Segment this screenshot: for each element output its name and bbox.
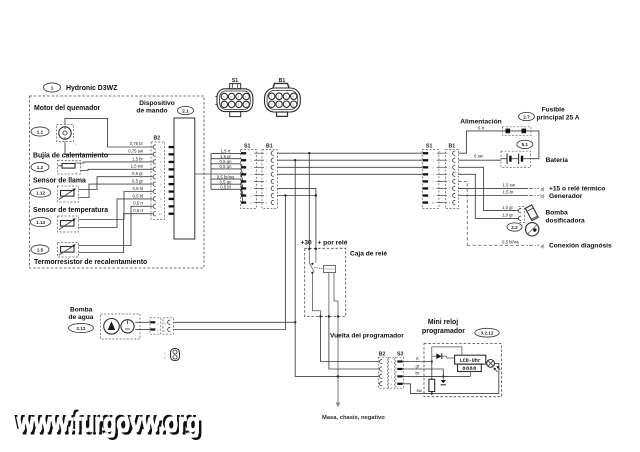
node 3.2.12 oval bbox=[475, 328, 499, 337]
flame sensor 1.12 bbox=[58, 186, 79, 202]
svg-text:B2: B2 bbox=[154, 136, 161, 142]
junction on bus1 bbox=[308, 152, 310, 154]
wire clock top loop bbox=[432, 347, 462, 362]
svg-text:2: 2 bbox=[278, 95, 280, 99]
svg-text:Fusible: Fusible bbox=[542, 107, 565, 114]
wire pump positive bbox=[174, 321, 296, 323]
svg-text:8: 8 bbox=[251, 201, 253, 205]
svg-text:8: 8 bbox=[433, 201, 435, 205]
svg-text:6: 6 bbox=[433, 187, 435, 191]
svg-text:Generador: Generador bbox=[549, 193, 583, 200]
connector S1 top view cavities bbox=[221, 93, 249, 107]
wire motor 0,75 br bbox=[65, 118, 153, 147]
svg-text:6: 6 bbox=[238, 103, 240, 107]
svg-text:B1: B1 bbox=[266, 144, 273, 150]
wire gr S3 to clock bbox=[403, 369, 444, 376]
svg-text:7: 7 bbox=[251, 194, 253, 198]
connector S1-B1 mid mating stubs bbox=[254, 153, 264, 202]
svg-text:1,5 rt: 1,5 rt bbox=[221, 148, 232, 153]
lamp illumination bbox=[486, 360, 500, 373]
connector B2 pin numbers bbox=[159, 145, 162, 216]
svg-text:Sensor de temperatura: Sensor de temperatura bbox=[33, 207, 108, 214]
water pump M 2.12 bbox=[101, 314, 141, 339]
node 2.12 oval bbox=[69, 323, 94, 332]
wire display to br bbox=[469, 372, 471, 377]
svg-text:S1: S1 bbox=[244, 144, 250, 150]
svg-text:Termorresistor de recalentamie: Termorresistor de recalentamiento bbox=[34, 259, 147, 266]
svg-text:1.5: 1.5 bbox=[37, 247, 44, 252]
svg-text:gr: gr bbox=[416, 363, 420, 368]
svg-text:4: 4 bbox=[251, 173, 253, 177]
svg-text:5: 5 bbox=[433, 180, 435, 184]
junction pin7 pump branch bbox=[284, 194, 286, 196]
svg-text:3: 3 bbox=[230, 95, 232, 99]
junction coil b bottom bbox=[337, 315, 339, 317]
svg-text:+30: +30 bbox=[301, 240, 313, 247]
svg-text:2: 2 bbox=[160, 153, 162, 157]
node 2.7 oval bbox=[519, 112, 535, 120]
svg-text:2: 2 bbox=[433, 159, 435, 163]
svg-text:8: 8 bbox=[223, 103, 225, 107]
svg-text:7: 7 bbox=[433, 194, 435, 198]
svg-text:8: 8 bbox=[160, 197, 162, 201]
svg-text:0,5 rt: 0,5 rt bbox=[133, 201, 144, 206]
capacitor to ground bbox=[441, 376, 446, 384]
svg-text:1,5 ws: 1,5 ws bbox=[131, 164, 143, 169]
wire br S3 to clock bbox=[403, 375, 471, 377]
svg-text:br: br bbox=[416, 371, 420, 376]
svg-text:S3: S3 bbox=[397, 351, 403, 357]
pump connector S housing bbox=[150, 318, 161, 334]
temperature sensor 1.13 bbox=[58, 216, 79, 232]
svg-text:0,5 bl: 0,5 bl bbox=[220, 185, 231, 190]
svg-text:4: 4 bbox=[266, 173, 268, 177]
wire ladder line3 bbox=[211, 164, 246, 168]
node 1.12 oval bbox=[30, 188, 50, 197]
wire temp bl a bbox=[79, 192, 153, 220]
connector S1 mid pins bbox=[241, 152, 246, 204]
svg-text:5.1: 5.1 bbox=[522, 142, 529, 147]
junction on bus2 bbox=[294, 159, 296, 161]
connector B2 programmer sockets bbox=[380, 359, 383, 386]
svg-text:1: 1 bbox=[251, 152, 253, 156]
node 1 oval bbox=[44, 83, 61, 92]
svg-text:+ por relé: + por relé bbox=[318, 240, 348, 247]
connector S1 right pin numbers bbox=[433, 152, 435, 205]
svg-text:0,5 gr: 0,5 gr bbox=[132, 171, 144, 176]
svg-text:a: a bbox=[165, 352, 167, 355]
wire 1,0 gr dosing pump b bbox=[458, 174, 518, 218]
wire overheat rt b bbox=[79, 214, 153, 253]
dosing pump 2.2 bbox=[525, 205, 539, 236]
svg-text:Hydronic D3WZ: Hydronic D3WZ bbox=[66, 85, 118, 92]
connector B1 top view cavities bbox=[269, 93, 297, 107]
svg-text:1: 1 bbox=[160, 145, 162, 149]
svg-text:Mini reloj: Mini reloj bbox=[428, 319, 458, 326]
node 2.2 oval bbox=[507, 223, 522, 231]
svg-text:2: 2 bbox=[266, 159, 268, 163]
node 2.1 oval bbox=[178, 106, 194, 114]
svg-text:5: 5 bbox=[266, 180, 268, 184]
wire ladder line2 bbox=[211, 159, 246, 161]
svg-text:4: 4 bbox=[433, 173, 435, 177]
svg-text:7: 7 bbox=[266, 194, 268, 198]
wire generator dash-dot tail bbox=[529, 195, 539, 197]
svg-text:3: 3 bbox=[285, 95, 287, 99]
svg-text:Sensor de llama: Sensor de llama bbox=[33, 178, 86, 185]
svg-text:0,5 bl: 0,5 bl bbox=[132, 193, 143, 198]
junction pin7/pin6 drop bbox=[315, 194, 317, 196]
svg-text:Batería: Batería bbox=[546, 157, 569, 164]
svg-text:5: 5 bbox=[449, 180, 451, 184]
svg-text:0,5 bl: 0,5 bl bbox=[132, 186, 143, 191]
svg-text:b: b bbox=[157, 329, 159, 333]
svg-text:0,5 gr: 0,5 gr bbox=[132, 179, 144, 184]
svg-text:0,75 sw: 0,75 sw bbox=[128, 149, 144, 154]
wire relay out to programmer rt bbox=[321, 317, 379, 362]
wire ground drop bbox=[337, 317, 339, 403]
ground arrow chassis bbox=[336, 403, 341, 408]
wire mid B1 pin6 down to relay bbox=[278, 188, 316, 248]
svg-text:1,5 sw: 1,5 sw bbox=[503, 182, 516, 187]
connector S1 mid pin numbers bbox=[251, 152, 253, 205]
relay K1 supply legs bbox=[308, 249, 310, 263]
svg-text:1: 1 bbox=[433, 152, 435, 156]
connector S1 right housing bbox=[422, 150, 439, 209]
svg-text:B1: B1 bbox=[449, 144, 456, 150]
connector a/b spare bbox=[165, 349, 180, 361]
svg-text:1,5 br: 1,5 br bbox=[503, 190, 515, 195]
wire bus4 mid B1 pin4 to right S1 pin4 bbox=[278, 173, 423, 175]
svg-text:4: 4 bbox=[223, 95, 225, 99]
junction relay out bottom bbox=[319, 315, 321, 317]
relay switch output leg bbox=[312, 273, 320, 317]
connector S3 housing bbox=[396, 357, 404, 388]
svg-text:1: 1 bbox=[245, 95, 247, 99]
svg-text:www.furgovw.org: www.furgovw.org bbox=[16, 408, 200, 438]
wire relay coil to programmer gr bbox=[329, 317, 379, 370]
svg-text:1.12: 1.12 bbox=[36, 190, 45, 195]
svg-text:B2: B2 bbox=[379, 351, 386, 357]
svg-text:8: 8 bbox=[266, 201, 268, 205]
junction gr/br bbox=[442, 375, 444, 377]
svg-text:0,75 br: 0,75 br bbox=[130, 141, 144, 146]
svg-text:a): a) bbox=[541, 186, 545, 191]
svg-text:b: b bbox=[165, 356, 167, 360]
junction coil a bottom bbox=[328, 315, 330, 317]
glow plug 1.2 bbox=[58, 158, 81, 175]
svg-text:1,0 gr: 1,0 gr bbox=[502, 205, 514, 210]
wire +30 drop to relay bbox=[308, 153, 310, 248]
control unit left pins bbox=[169, 146, 174, 215]
svg-text:Bomba: Bomba bbox=[546, 209, 569, 216]
overheat thermo resistor 1.5 bbox=[58, 243, 79, 258]
svg-text:a: a bbox=[165, 322, 167, 325]
svg-text:8: 8 bbox=[292, 103, 294, 107]
svg-text:5: 5 bbox=[271, 103, 273, 107]
svg-text:S1: S1 bbox=[426, 144, 432, 150]
svg-text:-: - bbox=[59, 158, 60, 161]
svg-text:b: b bbox=[525, 163, 527, 167]
wire ladder line6 bbox=[211, 179, 246, 188]
wire bus1 mid B1 pin1 to right S1 pin1 bbox=[278, 152, 423, 154]
svg-text:a: a bbox=[157, 322, 159, 325]
svg-text:1.13: 1.13 bbox=[36, 220, 45, 225]
svg-text:3: 3 bbox=[391, 375, 393, 379]
svg-text:5: 5 bbox=[160, 175, 162, 179]
LCD-Uhr display bbox=[455, 355, 486, 364]
svg-text:8: 8 bbox=[449, 201, 451, 205]
svg-text:+: + bbox=[76, 172, 78, 175]
svg-text:6: 6 bbox=[266, 187, 268, 191]
wire 1,5 br generator bbox=[458, 195, 528, 197]
connector B1 mid housing bbox=[262, 150, 277, 209]
svg-text:7: 7 bbox=[285, 103, 287, 107]
pump wires to connector bbox=[135, 321, 151, 323]
svg-text:2.2: 2.2 bbox=[511, 225, 518, 230]
svg-text:a: a bbox=[505, 164, 507, 167]
svg-text:3: 3 bbox=[266, 166, 268, 170]
svg-text:Motor del quemador: Motor del quemador bbox=[34, 105, 101, 112]
svg-text:Bomba: Bomba bbox=[70, 307, 93, 314]
fuse 2.7 main fuse 25A bbox=[503, 127, 532, 136]
svg-text:6: 6 bbox=[278, 103, 280, 107]
wire overheat rt a bbox=[79, 206, 153, 245]
svg-text:Conexión diagnósis: Conexión diagnósis bbox=[549, 243, 612, 250]
svg-text:2.12: 2.12 bbox=[77, 326, 86, 331]
wire glow 1,5 ws bbox=[81, 169, 153, 170]
connector B1 housing top view bbox=[265, 83, 301, 116]
pump connector B housing bbox=[163, 318, 174, 334]
svg-text:7: 7 bbox=[449, 194, 451, 198]
svg-text:4: 4 bbox=[391, 382, 393, 386]
svg-text:4: 4 bbox=[160, 168, 162, 172]
svg-text:8888: 8888 bbox=[462, 365, 477, 372]
junction ground tap bbox=[337, 375, 340, 378]
svg-text:Masa, chasis, negativo: Masa, chasis, negativo bbox=[322, 415, 385, 421]
connector B1 mid sockets bbox=[271, 151, 274, 205]
resistor R bbox=[429, 362, 435, 395]
svg-text:3: 3 bbox=[449, 166, 451, 170]
svg-text:0,5 bl/ws: 0,5 bl/ws bbox=[502, 239, 519, 244]
svg-text:1.1: 1.1 bbox=[37, 129, 44, 134]
wire U to S1 ladder line1 bbox=[211, 152, 246, 154]
svg-text:b): b) bbox=[541, 194, 545, 199]
wire bus2 mid B1 pin2 to right S1 pin2 bbox=[278, 159, 423, 161]
junction rt inside clock bbox=[431, 360, 433, 362]
svg-text:LCD-Uhr: LCD-Uhr bbox=[460, 358, 481, 364]
relay K1 coil bbox=[324, 265, 336, 272]
connector B1 right sockets bbox=[453, 151, 456, 205]
svg-text:dosificadora: dosificadora bbox=[546, 217, 586, 224]
svg-text:1: 1 bbox=[449, 152, 451, 156]
wire bus3 mid B1 pin3 to right S1 pin3 bbox=[278, 166, 423, 168]
svg-text:Caja de relé: Caja de relé bbox=[350, 251, 387, 258]
relay K1 switch bbox=[309, 263, 322, 274]
svg-text:programador: programador bbox=[422, 328, 465, 335]
wire flame gr a bbox=[79, 177, 153, 190]
relay coil leg b bbox=[334, 273, 338, 317]
svg-text:3: 3 bbox=[433, 166, 435, 170]
wire glow 1,5 br bbox=[75, 162, 153, 163]
svg-text:Bujía de calentamiento: Bujía de calentamiento bbox=[33, 153, 108, 160]
battery 5.1 bbox=[501, 151, 531, 167]
svg-text:5: 5 bbox=[245, 103, 247, 107]
svg-text:2: 2 bbox=[391, 368, 393, 372]
wire motor 0,75 sw bbox=[65, 142, 153, 155]
svg-text:2.1: 2.1 bbox=[182, 108, 189, 113]
wire temp bl b bbox=[79, 199, 153, 228]
svg-text:1.2: 1.2 bbox=[37, 165, 44, 170]
connector B1 top view pin numbers bbox=[271, 95, 295, 107]
ladder left border bbox=[210, 154, 212, 190]
dosing pump connector sockets bbox=[518, 208, 521, 220]
svg-text:0,5 rt: 0,5 rt bbox=[133, 208, 144, 213]
junction +30 at relay box bbox=[308, 248, 310, 250]
connector S1 top view pin numbers bbox=[223, 95, 247, 107]
svg-text:2: 2 bbox=[238, 95, 240, 99]
svg-text:1: 1 bbox=[51, 85, 54, 90]
watermark www.furgovw.org bbox=[14, 405, 203, 441]
connector programmer pin numbers bbox=[391, 360, 393, 386]
connector S1-B1 right mating stubs bbox=[437, 153, 448, 202]
svg-text:2: 2 bbox=[251, 159, 253, 163]
mini clock enclosure 3.2.12 bbox=[424, 344, 502, 397]
connector B1 right pin numbers bbox=[449, 152, 451, 205]
svg-text:a): a) bbox=[541, 243, 545, 248]
connector B1 right housing bbox=[445, 150, 458, 209]
svg-text:sw: sw bbox=[417, 388, 423, 393]
node 1.13 oval bbox=[30, 217, 50, 226]
connector B2 sockets bbox=[153, 145, 156, 216]
svg-text:3: 3 bbox=[160, 160, 162, 164]
wire 6 sw to battery negative bbox=[458, 159, 501, 161]
junction pump positive bbox=[294, 321, 296, 323]
wire flame gr b bbox=[79, 184, 153, 197]
wire pump positive drop bbox=[294, 160, 296, 322]
svg-text:+15 o relé térmico: +15 o relé térmico bbox=[549, 186, 605, 193]
wire pump negative drop bbox=[174, 196, 286, 330]
wire ladder line8 bbox=[211, 189, 246, 202]
svg-text:1: 1 bbox=[271, 95, 273, 99]
connector S1 mid housing bbox=[241, 150, 257, 209]
Hydronic D3WZ enclosure bbox=[30, 96, 205, 268]
pump connector B sockets bbox=[168, 320, 171, 332]
svg-text:9: 9 bbox=[159, 205, 161, 209]
svg-text:4: 4 bbox=[449, 173, 451, 177]
svg-text:10: 10 bbox=[159, 212, 162, 216]
svg-text:Dispositivo: Dispositivo bbox=[139, 100, 175, 107]
svg-text:3.2.12: 3.2.12 bbox=[481, 331, 494, 336]
connector B2 housing bbox=[151, 142, 165, 220]
wire 1,5 sw +15 bbox=[458, 187, 528, 189]
svg-text:1: 1 bbox=[266, 152, 268, 156]
svg-text:7: 7 bbox=[160, 190, 162, 194]
svg-text:3: 3 bbox=[251, 166, 253, 170]
svg-text:b: b bbox=[165, 329, 167, 333]
wire sw S3 pin4 bbox=[403, 363, 499, 393]
wire pump drop to programmer br bbox=[295, 322, 379, 376]
svg-text:7: 7 bbox=[230, 103, 232, 107]
connector S1 housing top view bbox=[216, 84, 253, 117]
svg-text:6: 6 bbox=[160, 182, 162, 186]
connector S1 right pins bbox=[423, 152, 428, 204]
svg-text:1,5 br: 1,5 br bbox=[132, 156, 144, 161]
wire 1,0 gr dosing pump a bbox=[458, 167, 518, 210]
svg-text:4: 4 bbox=[292, 95, 294, 99]
relay coil leg a bbox=[328, 273, 330, 317]
wire 6 rt to fuse bbox=[458, 131, 502, 153]
svg-text:2: 2 bbox=[449, 159, 451, 163]
wire rt S3 to clock bbox=[403, 361, 432, 363]
svg-text:+: + bbox=[75, 144, 77, 147]
wire mid B1 pin7 to pin6 drop bbox=[278, 195, 316, 197]
display digits 8888 bbox=[458, 364, 482, 372]
svg-text:1: 1 bbox=[391, 360, 393, 364]
wire fuse to battery positive bbox=[531, 131, 539, 159]
junction + por rele at relay box bbox=[315, 248, 317, 250]
svg-text:Vuelta del programador: Vuelta del programador bbox=[330, 333, 404, 340]
wire ladder line7 bbox=[211, 184, 246, 195]
node 1.5 oval bbox=[31, 245, 49, 254]
wire 0,5 bl/ws diagnosis dashed bbox=[458, 181, 467, 245]
wire ladder line5 from control unit bbox=[195, 174, 246, 181]
node 5.1 oval bbox=[517, 140, 533, 148]
wire ladder line4 bbox=[211, 169, 246, 174]
svg-text:de agua: de agua bbox=[69, 314, 94, 321]
svg-text:2.7: 2.7 bbox=[523, 114, 530, 119]
pump connector S pins bbox=[151, 321, 156, 330]
connector S3 pins bbox=[397, 360, 402, 385]
svg-text:principal 25 A: principal 25 A bbox=[537, 115, 580, 122]
node 1.2 oval bbox=[31, 162, 49, 171]
svg-text:6 sw: 6 sw bbox=[474, 153, 484, 158]
motor M 1.1 burner motor bbox=[57, 125, 78, 147]
svg-text:6 rt: 6 rt bbox=[478, 125, 485, 130]
svg-text:de mando: de mando bbox=[136, 108, 167, 115]
svg-text:5: 5 bbox=[251, 180, 253, 184]
svg-text:1,0 gr: 1,0 gr bbox=[502, 213, 514, 218]
wire +15 dash-dot tail bbox=[529, 187, 539, 189]
control unit U 2.1 bbox=[174, 118, 195, 239]
svg-text:0,5 gn: 0,5 gn bbox=[220, 164, 233, 169]
node 1.1 oval bbox=[31, 127, 49, 136]
diode D bbox=[432, 353, 455, 359]
svg-text:6: 6 bbox=[251, 187, 253, 191]
connector B1 mid pin numbers bbox=[266, 152, 268, 205]
svg-text:6: 6 bbox=[449, 187, 451, 191]
relay box enclosure bbox=[305, 248, 346, 316]
svg-text:rt: rt bbox=[416, 356, 419, 361]
connector B2 programmer housing bbox=[378, 357, 387, 388]
